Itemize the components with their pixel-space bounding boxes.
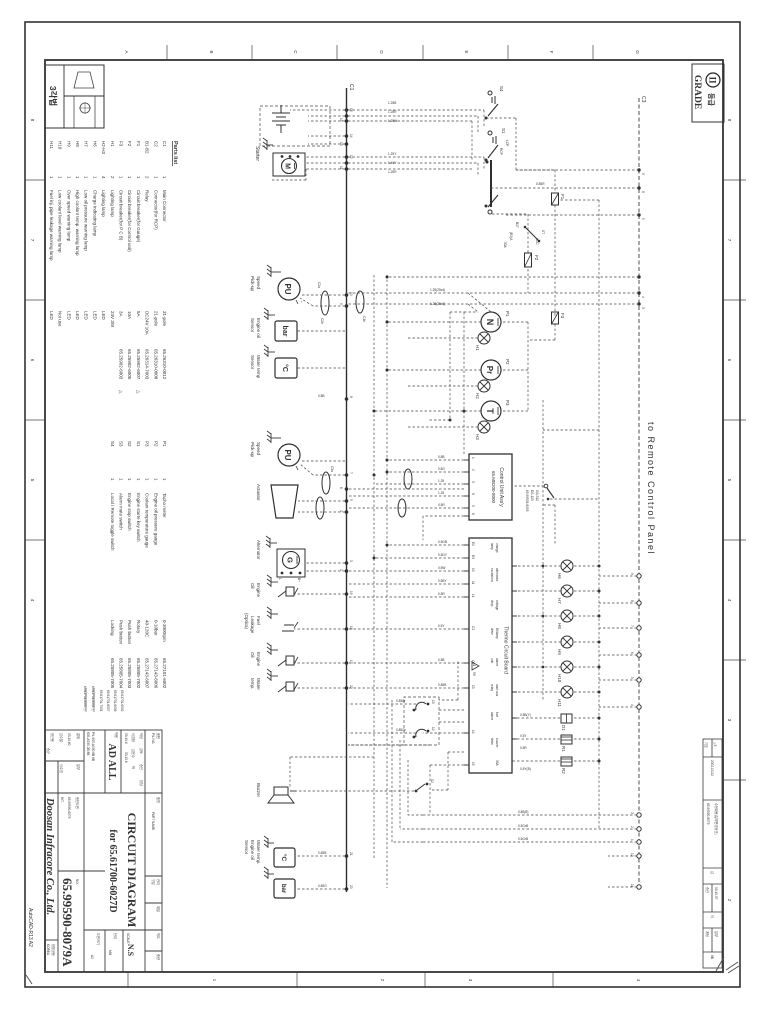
approval cells left (46, 733, 144, 786)
svg-text:LED: LED (92, 311, 97, 321)
wire gauge horizontal links (428, 312, 478, 454)
value labels control unit wires (438, 455, 445, 507)
svg-text:F2: F2 (127, 141, 132, 147)
inner border (45, 60, 723, 972)
svg-text:9: 9 (339, 303, 343, 305)
engine oil pressure switch SW1 (278, 587, 298, 597)
zone tick numbers right margin (212, 979, 641, 982)
svg-text:1.25(25x4): 1.25(25x4) (430, 288, 445, 292)
svg-text:G: G (635, 50, 640, 54)
svg-text:Alternator: Alternator (256, 540, 261, 560)
svg-text:5: 5 (641, 218, 645, 220)
relay B2 (413, 727, 435, 738)
svg-text:Water temp.: Water temp. (256, 840, 261, 864)
wire key switch to fuse F1 (486, 118, 555, 316)
svg-text:8: 8 (349, 396, 353, 398)
svg-text:Circuit breaker(for Gauge): Circuit breaker(for Gauge) (136, 190, 141, 243)
svg-text:to Remote Control Panel: to Remote Control Panel (646, 422, 656, 555)
value labels 1.25(25x4) (430, 288, 445, 306)
svg-text:P2: P2 (505, 359, 510, 365)
svg-text:H2: H2 (475, 393, 480, 399)
svg-text:30A: 30A (495, 760, 499, 767)
svg-text:LED: LED (66, 311, 71, 321)
pin numbers on C3 bus (630, 173, 645, 888)
wire feeds from bus up to key switch (three pairs) (348, 110, 484, 176)
svg-text:Fuel inj. pipe leakage warning: Fuel inj. pipe leakage warning lamp (49, 190, 54, 261)
svg-text:C2: C2 (153, 141, 158, 147)
svg-text:0.5B: 0.5B (438, 658, 445, 662)
wire water temp switch to bus (294, 687, 345, 689)
ground bar sensor (264, 308, 275, 320)
svg-text:L: L (278, 578, 282, 580)
svg-text:PU: PU (283, 283, 292, 294)
svg-text:15: 15 (471, 762, 475, 766)
svg-text:C1: C1 (162, 141, 167, 147)
lamp H8 (561, 610, 573, 622)
svg-text:H10: H10 (58, 141, 63, 150)
svg-text:LED: LED (75, 311, 80, 321)
water temp engine oil sensor C2 (274, 848, 295, 867)
part no applicability list (left of title block) (83, 686, 124, 712)
zone ticks bottom margin (25, 180, 45, 540)
svg-text:A2: A2 (90, 955, 94, 959)
svg-text:C1: C1 (348, 84, 354, 91)
svg-text:drive: drive (490, 628, 494, 635)
AD ALL cell (86, 732, 119, 781)
svg-text:relay: relay (490, 684, 494, 691)
svg-text:Local / Remote toggle switch: Local / Remote toggle switch (110, 493, 115, 551)
wire oil switch to bus (294, 593, 345, 595)
engine oil switch SW3 (278, 656, 298, 666)
svg-text:3: 3 (471, 481, 475, 483)
svg-text:LCP: LCP (505, 140, 509, 146)
svg-text:alternator: alternator (495, 568, 499, 582)
svg-text:0.85Gr: 0.85Gr (396, 728, 407, 732)
wire PU1 to bus (300, 295, 345, 306)
wire water temp sensor to bus (297, 367, 345, 369)
wire bar sensor to bus (297, 330, 345, 332)
svg-text:Engine: Engine (256, 652, 261, 667)
svg-text:8B: 8B (710, 955, 714, 959)
svg-text:H7: H7 (84, 141, 89, 147)
buzzer BZ1 (268, 787, 296, 803)
svg-text:0.85B: 0.85B (438, 683, 446, 687)
svg-text:13: 13 (471, 685, 475, 689)
wire lamp rail upper (598, 200, 600, 830)
svg-text:7: 7 (630, 625, 634, 627)
svg-text:D1: D1 (561, 725, 566, 731)
svg-text:PART NAME: PART NAME (151, 812, 155, 830)
svg-text:P1: P1 (162, 441, 167, 447)
svg-text:65.25902-6005: 65.25902-6005 (127, 349, 132, 380)
svg-text:0.5B(Y): 0.5B(Y) (520, 713, 531, 717)
svg-text:N: N (485, 319, 495, 326)
svg-text:65.25805-7003: 65.25805-7003 (127, 658, 132, 689)
svg-text:9: 9 (641, 173, 645, 175)
svg-text:3: 3 (641, 307, 645, 309)
connector oval sensor pair 1 (322, 472, 330, 494)
wire C3 remote bus (dashed) (638, 98, 640, 890)
svg-text:lamp: lamp (490, 543, 494, 550)
svg-text:3A: 3A (119, 311, 124, 317)
svg-text:8: 8 (641, 191, 645, 193)
svg-text:A: A (124, 50, 129, 53)
lamp H11 (561, 686, 573, 698)
svg-text:21-pole: 21-pole (153, 311, 158, 327)
svg-text:7: 7 (349, 472, 353, 474)
svg-text:65.26314-7003: 65.26314-7003 (145, 349, 150, 380)
wire oil switch 2 to bus (294, 662, 345, 664)
svg-text:N.S: N.S (126, 944, 135, 957)
speed pickup PU2 (278, 444, 300, 470)
svg-text:Sensor: Sensor (244, 840, 249, 855)
svg-text:LED: LED (49, 311, 54, 321)
wire rails to control unit (374, 275, 387, 888)
svg-text:0.85(B): 0.85(B) (518, 810, 528, 814)
svg-text:Over speed warning lamp: Over speed warning lamp (66, 190, 71, 242)
value labels thermo wires (438, 540, 448, 687)
svg-text:0.5GB: 0.5GB (438, 540, 447, 544)
svg-text:L1: L1 (471, 594, 475, 598)
svg-text:H8: H8 (75, 141, 80, 147)
svg-text:5: 5 (349, 499, 353, 501)
svg-text:voltage: voltage (495, 600, 499, 611)
svg-text:03.10.6: 03.10.6 (124, 752, 128, 763)
svg-text:S2: S2 (430, 779, 434, 783)
svg-text:3각법: 3각법 (48, 86, 58, 106)
svg-text:△: △ (119, 390, 124, 394)
zone ticks right margin (128, 972, 553, 988)
svg-text:5: 5 (471, 505, 475, 507)
svg-text:2: 2 (630, 826, 634, 828)
svg-text:605-A530 2B 8B: 605-A530 2B 8B (86, 732, 90, 755)
pin numbers thermo board bottom (471, 542, 475, 766)
svg-text:C2a: C2a (317, 282, 321, 288)
svg-text:65.25805-7005: 65.25805-7005 (110, 658, 115, 689)
svg-text:LED: LED (101, 311, 106, 321)
svg-text:03.10.60: 03.10.60 (67, 733, 71, 746)
speed pickup PU1 (278, 278, 303, 304)
svg-text:C3: C3 (640, 96, 646, 103)
svg-text:S1: S1 (136, 441, 141, 447)
svg-text:65.26310-0008: 65.26310-0008 (153, 349, 158, 380)
third angle projection box (45, 65, 104, 128)
svg-text:H11: H11 (557, 699, 562, 707)
corner scribble marks (26, 957, 739, 984)
svg-text:30A: 30A (503, 242, 507, 249)
svg-text:°C: °C (281, 364, 289, 372)
svg-text:E: E (464, 50, 469, 53)
zone ticks top margin (723, 180, 746, 780)
junction dots on rails (373, 276, 389, 477)
svg-text:0.5R: 0.5R (520, 746, 527, 750)
svg-text:14: 14 (349, 134, 353, 138)
lamp H3 (478, 421, 490, 433)
wire buzzer drop (289, 757, 291, 787)
wire alternator to bus (305, 563, 345, 571)
svg-text:1.25Y: 1.25Y (388, 152, 397, 156)
svg-text:unit: unit (490, 658, 494, 663)
switch S4 (starter aid) (485, 86, 505, 120)
water temp switch SW4 (278, 682, 298, 692)
battery cell symbol (272, 105, 290, 133)
svg-text:Leakage: Leakage (250, 616, 255, 634)
svg-text:1.25: 1.25 (438, 479, 444, 483)
svg-text:R2: R2 (561, 768, 566, 774)
lamp H2 (478, 380, 490, 392)
svg-text:20: 20 (349, 885, 353, 889)
svg-text:Engine stop switch: Engine stop switch (127, 493, 132, 531)
connector oval C1b (356, 291, 364, 313)
svg-text:F1: F1 (560, 194, 565, 200)
svg-text:Circuit breaker(for P C B): Circuit breaker(for P C B) (119, 190, 124, 241)
svg-text:NO.: NO. (75, 879, 79, 885)
svg-text:H6: H6 (557, 573, 562, 579)
title block small labels row (90, 733, 161, 960)
svg-text:M: M (284, 163, 291, 169)
svg-text:Push button: Push button (119, 620, 124, 645)
svg-text:T: T (485, 408, 495, 414)
zone tick letters left margin (124, 50, 640, 54)
svg-text:65.61701-7001: 65.61701-7001 (99, 690, 103, 712)
wire actuator to bus (298, 501, 345, 512)
svg-text:bar: bar (280, 884, 286, 894)
svg-text:Sensor: Sensor (250, 318, 255, 333)
svg-text:B+: B+ (297, 578, 301, 582)
svg-text:0.5Y: 0.5Y (520, 734, 527, 738)
svg-text:Relay: Relay (145, 190, 150, 202)
svg-text:G: G (286, 557, 295, 563)
pin numbers control unit (471, 457, 475, 515)
wire C2 riser pair (348, 293, 491, 312)
svg-text:bar: bar (281, 326, 288, 337)
svg-text:W/lamp: W/lamp (495, 628, 499, 639)
svg-text:11: 11 (471, 581, 475, 585)
svg-text:5A: 5A (136, 311, 141, 317)
ground oil switch (267, 575, 278, 587)
wire gauge feeds from F3 (374, 322, 555, 427)
svg-text:H3: H3 (475, 434, 480, 440)
junction dots on C3 bus (637, 168, 640, 305)
svg-text:1: 1 (471, 457, 475, 459)
svg-text:65.25805-7002: 65.25805-7002 (136, 658, 141, 689)
wire battery to bus (290, 110, 345, 144)
wire bar sensor right to bus (295, 888, 345, 890)
junction dots misc (373, 410, 466, 560)
svg-text:ACC: ACC (535, 238, 539, 245)
svg-text:0.5BY: 0.5BY (438, 579, 448, 583)
svg-text:AutoCAD-R13 A2: AutoCAD-R13 A2 (27, 908, 33, 947)
svg-text:H6: H6 (92, 141, 97, 147)
water temp sensor C (275, 358, 297, 378)
svg-text:0.5W: 0.5W (438, 566, 445, 570)
svg-text:0-10bar: 0-10bar (153, 620, 158, 636)
svg-text:F3: F3 (560, 313, 565, 319)
svg-text:0.5R: 0.5R (438, 503, 445, 507)
svg-text:65.25805-7004: 65.25805-7004 (119, 658, 124, 689)
svg-text:Not use: Not use (58, 311, 63, 327)
svg-text:03.10.07: 03.10.07 (714, 887, 718, 900)
wire starter to bus (270, 157, 345, 180)
lamp H10 (561, 661, 573, 673)
svg-text:65.61701-6004 △: 65.61701-6004 △ (91, 686, 95, 711)
svg-text:S3: S3 (119, 441, 124, 447)
svg-text:19: 19 (349, 591, 353, 595)
svg-text:5: 5 (630, 677, 634, 679)
svg-text:1.25R: 1.25R (388, 170, 397, 174)
svg-text:H7: H7 (557, 598, 562, 604)
warning triangle on board (472, 662, 479, 677)
svg-text:65.25902-6007: 65.25902-6007 (136, 349, 141, 380)
op-amp: none; control unit box U1 (469, 454, 512, 520)
svg-text:0.85B: 0.85B (318, 851, 326, 855)
gauge P1 tachometer (481, 311, 510, 332)
wire buzzer rail (290, 756, 374, 758)
svg-text:charge: charge (495, 543, 499, 553)
svg-text:1.25B: 1.25B (388, 101, 396, 105)
svg-text:GRADE: GRADE (692, 75, 702, 109)
svg-text:excitation: excitation (490, 568, 494, 582)
svg-text:Engine oil pressure gauge: Engine oil pressure gauge (153, 493, 158, 546)
svg-text:Oil: Oil (250, 652, 255, 658)
ground fuel leakage (267, 607, 278, 619)
lamp H7 (561, 585, 573, 597)
zone tick numbers bottom margin (30, 119, 35, 602)
svg-text:Water: Water (256, 678, 261, 690)
svg-text:13: 13 (431, 700, 435, 704)
svg-text:Buzzer: Buzzer (256, 783, 261, 798)
svg-text:Pick-up: Pick-up (250, 442, 255, 458)
svg-text:Lighting lamp: Lighting lamp (101, 190, 106, 217)
svg-text:0.85Br: 0.85Br (396, 699, 406, 703)
svg-text:65.26310-0012: 65.26310-0012 (162, 349, 167, 380)
fuse F2 (525, 253, 540, 267)
svg-text:65.61701-6006: 65.61701-6006 (113, 690, 117, 712)
svg-text:6: 6 (471, 513, 475, 515)
connector oval sensor pair 2 (316, 497, 324, 519)
wire relay cluster links (290, 700, 430, 842)
battery B (dashed enclosure) (260, 106, 330, 146)
gauge P3 coolant temp (481, 400, 510, 421)
starter motor M1 (273, 153, 305, 176)
ground PU2 (267, 431, 281, 443)
svg-text:H10: H10 (557, 674, 562, 683)
svg-text:Charge indicating lamp: Charge indicating lamp (92, 190, 97, 237)
svg-text:65.25902-6003: 65.25902-6003 (119, 349, 124, 380)
svg-text:Alarm mute switch: Alarm mute switch (119, 493, 124, 530)
svg-text:3: 3 (630, 812, 634, 814)
svg-text:S4: S4 (110, 441, 115, 447)
svg-text:4: 4 (630, 704, 634, 706)
actuator A1 (271, 485, 298, 518)
svg-text:RCP: RCP (499, 148, 503, 155)
svg-text:1.25R: 1.25R (388, 110, 397, 114)
svg-text:Water temp: Water temp (256, 355, 261, 379)
svg-text:△3: △3 (713, 742, 717, 746)
svg-text:Rotary: Rotary (136, 620, 141, 634)
svg-text:F3: F3 (119, 141, 124, 147)
svg-text:Circuit breaker(for Control un: Circuit breaker(for Control unit) (127, 190, 132, 252)
svg-text:DC24V 10A: DC24V 10A (145, 311, 150, 335)
svg-text:65.MB200-8000: 65.MB200-8000 (491, 471, 496, 504)
svg-text:65.61701-6007: 65.61701-6007 (106, 690, 110, 712)
svg-text:P/L NO.: P/L NO. (151, 733, 155, 744)
ground PU1 (267, 265, 281, 277)
svg-text:P1: P1 (505, 311, 510, 317)
svg-text:H11: H11 (49, 141, 54, 149)
lamp H1 (478, 332, 490, 344)
svg-text:Control Unit Ass'y: Control Unit Ass'y (498, 467, 504, 507)
svg-text:(R2)A: (R2)A (509, 232, 513, 241)
svg-text:DS-125: DS-125 (530, 490, 534, 501)
svg-text:Pr: Pr (485, 366, 494, 374)
pin numbers on C1 bus (339, 108, 353, 889)
gauge P2 oil pressure (481, 359, 510, 380)
svg-text:drive: drive (490, 738, 494, 745)
svg-text:03.10.6: 03.10.6 (124, 733, 128, 744)
svg-text:0.85R: 0.85R (536, 182, 545, 186)
svg-text:R1: R1 (561, 746, 566, 752)
svg-text:buzzer: buzzer (495, 738, 499, 749)
relay B1 (413, 700, 435, 711)
svg-text:Speed: Speed (256, 442, 261, 456)
svg-text:0.8B: 0.8B (318, 394, 325, 398)
svg-text:S2: S2 (127, 441, 132, 447)
svg-text:12: 12 (431, 727, 435, 731)
wire thermo right-end links to relays (348, 660, 464, 790)
fuse F1 (552, 193, 566, 205)
svg-text:PU: PU (283, 449, 292, 460)
svg-text:65.61701-6002: 65.61701-6002 (120, 690, 124, 712)
svg-text:Low coolant level warning lamp: Low coolant level warning lamp (58, 190, 63, 253)
ground water temp sensor (264, 345, 275, 357)
wire PU2 to bus (300, 461, 345, 475)
svg-text:H2-H3: H2-H3 (101, 141, 106, 155)
svg-text:1: 1 (630, 839, 634, 841)
svg-text:Low oil pressure warning lamp: Low oil pressure warning lamp (84, 190, 89, 251)
svg-text:Doosan Infracore Co., Ltd.: Doosan Infracore Co., Ltd. (44, 797, 55, 915)
svg-text:Actuator: Actuator (256, 484, 261, 501)
svg-text:8: 8 (630, 600, 634, 602)
switch S1 key switch (485, 128, 510, 162)
svg-text:65.99503-8153: 65.99503-8153 (525, 490, 529, 512)
svg-text:Engine starte key switch: Engine starte key switch (136, 493, 141, 542)
connector oval C2b (321, 291, 329, 315)
svg-text:E3: E3 (471, 555, 475, 559)
svg-text:Connector(for RCP): Connector(for RCP) (153, 190, 158, 230)
svg-text:F2: F2 (534, 255, 539, 261)
svg-text:Fuel: Fuel (256, 616, 261, 625)
svg-text:40-120C: 40-120C (145, 620, 150, 638)
parts list table 1 (49, 141, 167, 394)
wire lamp rail lower (542, 400, 544, 700)
ground water temp switch (267, 669, 278, 681)
svg-text:10A: 10A (127, 311, 132, 319)
svg-text:(Optica): (Optica) (244, 613, 249, 630)
lamp H9 (561, 636, 573, 648)
parts list table 2 (110, 441, 167, 689)
svg-text:fuel: fuel (495, 712, 499, 717)
svg-text:0.8B: 0.8B (438, 455, 445, 459)
svg-text:S4: S4 (499, 86, 504, 92)
svg-text:1.40Y: 1.40Y (388, 161, 397, 165)
svg-text:Engine oil: Engine oil (250, 840, 255, 860)
svg-text:Push button: Push button (127, 620, 132, 645)
svg-text:2: 2 (471, 469, 475, 471)
svg-text:31-pole: 31-pole (162, 311, 167, 327)
ground temp sensor right (264, 836, 274, 848)
svg-text:Tacho meter: Tacho meter (162, 493, 167, 518)
